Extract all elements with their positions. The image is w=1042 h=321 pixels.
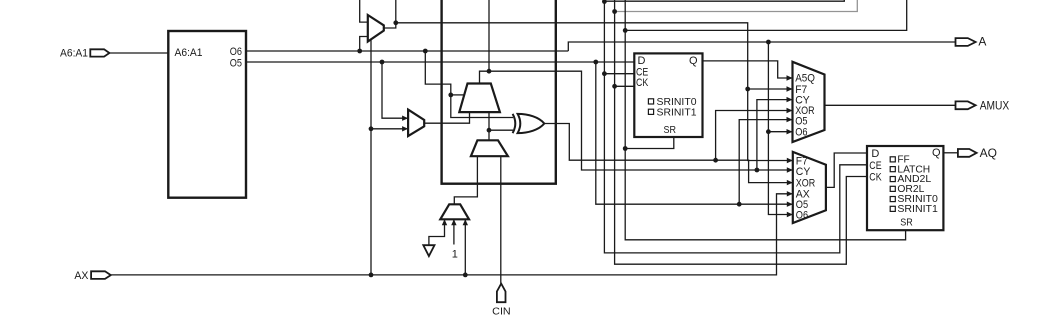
svg-text:SR: SR bbox=[900, 216, 913, 228]
svg-text:SR: SR bbox=[664, 124, 677, 136]
svg-text:A5Q: A5Q bbox=[795, 72, 815, 84]
svg-text:O6: O6 bbox=[230, 46, 242, 58]
svg-text:CIN: CIN bbox=[492, 305, 511, 317]
svg-text:AMUX: AMUX bbox=[980, 98, 1010, 112]
svg-text:D: D bbox=[638, 55, 646, 67]
svg-text:A6:A1: A6:A1 bbox=[175, 47, 203, 59]
svg-text:O5: O5 bbox=[795, 115, 807, 127]
svg-text:AQ: AQ bbox=[980, 146, 997, 160]
svg-text:O5: O5 bbox=[230, 57, 242, 69]
svg-text:Q: Q bbox=[689, 55, 698, 67]
svg-text:XOR: XOR bbox=[796, 177, 815, 189]
svg-text:AX: AX bbox=[74, 270, 89, 282]
svg-text:A6:A1: A6:A1 bbox=[60, 47, 88, 59]
svg-text:D: D bbox=[871, 148, 879, 160]
svg-text:CY: CY bbox=[796, 166, 811, 178]
svg-text:SRINIT1: SRINIT1 bbox=[897, 203, 938, 215]
svg-text:1: 1 bbox=[452, 249, 458, 261]
svg-text:A: A bbox=[978, 34, 986, 48]
svg-text:CK: CK bbox=[869, 171, 882, 183]
svg-text:SRINIT1: SRINIT1 bbox=[657, 107, 697, 119]
svg-text:CK: CK bbox=[636, 77, 649, 89]
svg-text:O6: O6 bbox=[796, 209, 808, 221]
svg-text:CE: CE bbox=[869, 160, 881, 172]
svg-text:Q: Q bbox=[932, 147, 941, 159]
svg-text:O6: O6 bbox=[795, 127, 807, 139]
